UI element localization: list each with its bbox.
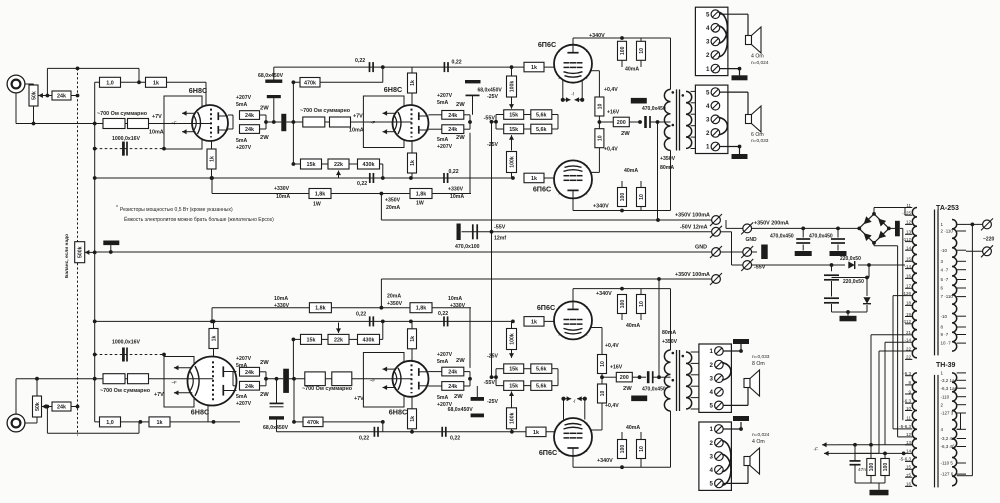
svg-text:+340V: +340V [593,204,609,210]
svg-text:20mA: 20mA [387,294,401,300]
svg-text:6Н8С: 6Н8С [191,408,209,417]
svg-text:2W: 2W [260,106,269,112]
svg-text:2: 2 [586,422,588,426]
svg-text:2: 2 [558,333,560,337]
svg-text:1000,0x16V: 1000,0x16V [112,340,141,346]
svg-text:40mA: 40mA [626,323,640,329]
svg-text:24k: 24k [245,370,254,376]
svg-text:-110 5: -110 5 [941,461,954,466]
svg-text:100: 100 [883,463,889,472]
svg-text:1W: 1W [313,202,321,208]
svg-text:10mA: 10mA [450,194,464,200]
svg-text:47n: 47n [858,467,866,473]
svg-text:24k: 24k [448,384,457,390]
svg-text:2: 2 [558,449,560,453]
svg-text:10 ·7: 10 ·7 [941,341,952,346]
svg-text:GND: GND [695,244,707,250]
svg-text:100k: 100k [509,156,515,168]
svg-text:8 Om: 8 Om [752,361,765,367]
svg-text:3: 3 [709,453,713,460]
svg-text:5,6k: 5,6k [536,127,547,133]
svg-text:-25V: -25V [487,354,498,360]
svg-text:10mA: 10mA [448,296,462,302]
svg-text:2: 2 [558,306,560,310]
svg-text:24k: 24k [448,370,457,376]
svg-text:+207V: +207V [236,356,252,362]
svg-text:10: 10 [639,301,645,307]
svg-text:5: 5 [709,403,713,410]
svg-text:5mA: 5mA [236,102,247,108]
svg-text:2: 2 [558,422,560,426]
svg-text:200: 200 [620,375,629,381]
svg-text:2: 2 [586,49,588,53]
svg-text:-3,2 1а: -3,2 1а [941,378,956,383]
svg-text:6Н8С: 6Н8С [384,85,402,94]
svg-text:0,22: 0,22 [452,60,462,66]
svg-text:+350V: +350V [660,156,676,162]
svg-text:14: 14 [906,246,912,251]
svg-text:1,0: 1,0 [106,420,114,426]
svg-text:15k: 15k [307,162,316,168]
svg-text:15k: 15k [509,113,518,119]
svg-text:6П6С: 6П6С [539,448,557,457]
svg-text:2: 2 [706,130,710,137]
svg-text:3: 3 [706,39,710,46]
svg-text:+340V: +340V [596,291,612,297]
svg-text:22: 22 [906,355,912,360]
svg-text:10: 10 [597,135,603,141]
svg-text:1k: 1k [531,319,537,325]
svg-text:5,6k: 5,6k [536,113,547,119]
svg-text:-55V: -55V [484,380,496,386]
svg-text:~700 Ом суммарно: ~700 Ом суммарно [97,111,148,117]
svg-text:-6,3 4б: -6,3 4б [941,444,956,449]
svg-text:220,0x50: 220,0x50 [843,279,864,285]
svg-text:5mA: 5mA [437,137,448,143]
svg-text:4 ·7: 4 ·7 [941,267,949,272]
svg-text:+207V: +207V [236,95,252,101]
svg-text:11: 11 [906,203,911,208]
svg-text:+207V: +207V [437,144,453,150]
svg-text:~700 Ом суммарно: ~700 Ом суммарно [302,386,353,392]
svg-text:2: 2 [586,192,588,196]
svg-text:+350V: +350V [385,198,401,204]
svg-text:5,6k: 5,6k [536,384,547,390]
svg-text:~700 Ом суммарно: ~700 Ом суммарно [100,388,151,394]
svg-text:+350V 100mA: +350V 100mA [675,213,710,219]
svg-text:+0,4V: +0,4V [605,403,619,409]
svg-text:5mA: 5mA [437,359,448,365]
svg-text:22: 22 [906,346,912,351]
svg-text:+330V: +330V [274,186,290,192]
svg-text:2W: 2W [621,131,630,137]
svg-text:24k: 24k [245,113,254,119]
svg-text:-112: -112 [902,319,911,324]
svg-text:2W: 2W [260,135,269,141]
svg-text:+16V: +16V [607,110,620,116]
svg-text:n=0,024: n=0,024 [752,432,770,438]
svg-text:10mA: 10mA [276,194,290,200]
svg-text:1k: 1k [410,336,416,342]
svg-text:5 ·7: 5 ·7 [941,277,949,282]
svg-text:+350V: +350V [662,339,678,345]
svg-text:24k: 24k [448,113,457,119]
svg-text:~220: ~220 [983,237,994,243]
svg-text:-55V: -55V [484,116,496,122]
svg-text:6 Om: 6 Om [751,132,764,138]
svg-text:5mA: 5mA [236,138,247,144]
svg-text:100: 100 [620,445,626,454]
svg-text:+350V: +350V [387,301,403,307]
svg-text:5mA: 5mA [437,395,448,401]
svg-text:40mA: 40mA [626,425,640,431]
svg-text:1W: 1W [416,201,424,207]
svg-text:4: 4 [709,467,713,474]
svg-text:1k: 1k [410,80,416,86]
svg-text:5,6k: 5,6k [536,367,547,373]
svg-text:220,0x50: 220,0x50 [840,256,861,262]
svg-text:2: 2 [558,76,560,80]
svg-text:-5-6,3: -5-6,3 [899,457,911,462]
svg-text:+330V: +330V [448,187,464,193]
svg-text:9 ·7: 9 ·7 [941,332,949,337]
svg-text:470k: 470k [304,80,316,86]
svg-text:2: 2 [586,333,588,337]
svg-text:~F: ~F [171,380,177,385]
svg-text:6Н8С: 6Н8С [189,86,207,95]
svg-text:1k: 1k [531,65,537,71]
svg-text:470,0x450: 470,0x450 [770,234,794,240]
svg-text:±5: ±5 [906,473,911,478]
svg-text:0,22: 0,22 [449,169,459,175]
svg-text:0,22: 0,22 [438,311,448,317]
svg-text:20mA: 20mA [386,205,400,211]
svg-text:6П6С: 6П6С [538,40,556,49]
svg-text:+207V: +207V [236,145,252,151]
svg-text:10: 10 [639,446,645,452]
svg-text:50k: 50k [31,91,37,100]
svg-text:-50V 12mA: -50V 12mA [680,225,708,231]
svg-text:10: 10 [639,48,645,54]
svg-text:-112: -112 [902,237,911,242]
svg-text:7 ·110: 7 ·110 [941,294,954,299]
svg-text:+330V: +330V [450,303,466,309]
svg-text:12: 12 [906,220,912,225]
svg-text:5mA: 5mA [437,100,448,106]
svg-text:12mf: 12mf [494,236,506,242]
svg-text:2: 2 [586,76,588,80]
svg-text:1k: 1k [410,160,416,166]
svg-text:*: * [116,205,118,211]
svg-text:1,8k: 1,8k [416,306,427,312]
svg-text:15: 15 [906,465,912,470]
svg-text:19: 19 [906,312,912,317]
svg-text:+207V: +207V [437,402,453,408]
svg-text:15k: 15k [307,337,316,343]
svg-text:n=0,033: n=0,033 [752,354,770,360]
svg-text:Резисторы мощностью 0,5 Вт (кр: Резисторы мощностью 0,5 Вт (кроме указан… [120,207,233,213]
svg-text:100: 100 [620,193,626,202]
svg-text:4: 4 [706,25,710,32]
svg-text:4 Om: 4 Om [752,439,765,445]
svg-text:0,22: 0,22 [357,181,367,187]
svg-text:100k: 100k [509,333,515,345]
svg-text:200: 200 [617,120,626,126]
svg-text:2W: 2W [456,135,465,141]
svg-text:+0,4V: +0,4V [605,343,619,349]
svg-text:+207V: +207V [437,93,453,99]
svg-text:430k: 430k [363,162,375,168]
svg-text:+7V: +7V [154,392,164,398]
svg-text:18: 18 [906,301,912,306]
svg-text:24k: 24k [57,94,66,100]
svg-text:24k: 24k [245,384,254,390]
svg-text:1k: 1k [211,336,217,342]
svg-text:17: 17 [906,284,912,289]
svg-text:0,22: 0,22 [450,436,460,442]
svg-text:15k: 15k [509,384,518,390]
svg-text:4: 4 [706,103,710,110]
svg-text:16: 16 [906,274,912,279]
svg-text:+7V: +7V [152,114,162,120]
svg-text:1,8k: 1,8k [315,192,326,198]
svg-text:100: 100 [620,46,626,55]
svg-text:2: 2 [709,362,713,369]
svg-text:10: 10 [639,194,645,200]
svg-text:n=0,024: n=0,024 [751,60,769,66]
svg-text:1,8k: 1,8k [315,306,326,312]
svg-text:-6,3: -6,3 [903,371,911,376]
svg-text:-10: -10 [941,314,948,319]
svg-text:5mA: 5mA [236,363,247,369]
svg-text:0,22: 0,22 [356,312,366,318]
svg-text:1: 1 [706,66,710,73]
svg-text:+0,4V: +0,4V [604,147,618,153]
svg-text:6П6С: 6П6С [533,185,551,194]
svg-text:+350V 100mA: +350V 100mA [675,272,710,278]
svg-text:2: 2 [586,165,588,169]
svg-text:100k: 100k [509,412,515,424]
svg-text:n=0,033: n=0,033 [751,138,769,144]
svg-text:22k: 22k [334,162,343,168]
svg-text:ТА-253: ТА-253 [936,205,959,212]
svg-text:10: 10 [600,361,606,367]
svg-text:15k: 15k [509,367,518,373]
svg-text:24k: 24k [57,405,66,411]
svg-text:6П6С: 6П6С [537,303,555,312]
svg-text:1k: 1k [410,416,416,422]
svg-text:Ёмкость электролитов можно бра: Ёмкость электролитов можно брать больше … [124,216,274,223]
svg-text:+207V: +207V [236,401,252,407]
svg-text:2W: 2W [456,358,465,364]
svg-text:10mA: 10mA [149,130,164,136]
svg-text:1: 1 [706,144,710,151]
svg-text:1: 1 [709,426,713,433]
svg-text:2: 2 [586,306,588,310]
svg-text:-10: -10 [941,248,948,253]
svg-text:13: 13 [906,230,912,235]
svg-text:100: 100 [869,463,875,472]
svg-text:1,0: 1,0 [106,80,114,86]
svg-text:4: 4 [709,389,713,396]
svg-text:2: 2 [709,440,713,447]
svg-text:22k: 22k [334,337,343,343]
svg-text:1: 1 [709,348,713,355]
svg-text:-25V: -25V [487,399,498,405]
svg-text:2: 2 [558,192,560,196]
svg-text:10: 10 [906,406,912,411]
svg-text:80mA: 80mA [662,330,676,336]
svg-text:-125: -125 [902,211,912,216]
svg-text:5: 5 [706,89,710,96]
svg-text:-127 3: -127 3 [941,411,954,416]
svg-text:80mA: 80mA [660,165,674,171]
svg-text:1k: 1k [209,156,215,162]
svg-text:12: 12 [906,432,912,437]
svg-text:10mA: 10mA [274,296,288,302]
svg-text:2: 2 [558,165,560,169]
svg-text:2 ·110: 2 ·110 [941,229,954,234]
svg-text:40mA: 40mA [624,168,638,174]
svg-text:+350V 200mA: +350V 200mA [754,221,789,227]
svg-text:24k: 24k [245,127,254,133]
svg-text:-14: -14 [904,338,911,343]
svg-text:-110: -110 [941,394,950,399]
svg-text:+340V: +340V [589,33,605,39]
svg-text:1,8k: 1,8k [416,192,427,198]
svg-text:-F: -F [813,447,818,453]
svg-text:21: 21 [906,330,912,335]
svg-text:-3,2 4а: -3,2 4а [941,436,956,441]
svg-text:~700 Ом суммарно: ~700 Ом суммарно [300,108,351,114]
svg-text:ТН-39: ТН-39 [936,362,956,369]
svg-text:2: 2 [706,52,710,59]
svg-text:68,0x450V: 68,0x450V [258,73,284,79]
svg-text:5: 5 [709,481,713,488]
svg-text:470,0x450: 470,0x450 [642,106,666,112]
svg-text:-14: -14 [904,264,911,269]
svg-text:2W: 2W [260,360,269,366]
svg-text:470,0x450: 470,0x450 [809,234,833,240]
svg-text:+0,4V: +0,4V [604,87,618,93]
svg-text:500k: 500k [78,246,84,258]
svg-text:10mA: 10mA [349,128,364,134]
svg-text:11: 11 [906,416,911,421]
svg-text:2W: 2W [260,392,269,398]
svg-text:1000,0x16V: 1000,0x16V [112,136,141,142]
svg-text:1k: 1k [157,420,163,426]
svg-text:2: 2 [586,449,588,453]
svg-text:GND: GND [746,237,758,243]
svg-text:5mA: 5mA [236,394,247,400]
svg-text:+207V: +207V [437,352,453,358]
svg-text:15k: 15k [509,127,518,133]
svg-text:6Н8С: 6Н8С [389,408,407,417]
svg-text:-55V: -55V [494,225,506,231]
svg-text:470,0x450: 470,0x450 [642,387,666,393]
svg-text:2W: 2W [456,102,465,108]
svg-text:+330V: +330V [274,303,290,309]
svg-text:15: 15 [906,257,912,262]
svg-text:68,0x450V: 68,0x450V [478,88,503,94]
svg-text:+7V: +7V [354,396,364,402]
svg-text:430k: 430k [363,337,375,343]
svg-text:2W: 2W [454,394,463,400]
svg-text:-6,3: -6,3 [903,399,911,404]
svg-text:10: 10 [597,104,603,110]
svg-text:100: 100 [620,300,626,309]
svg-text:14: 14 [906,449,912,454]
svg-text:40mA: 40mA [625,67,639,73]
svg-text:24k: 24k [448,127,457,133]
svg-text:1k: 1k [153,80,159,86]
svg-text:Баланс, если надо: Баланс, если надо [64,234,70,278]
svg-text:5: 5 [706,11,710,18]
svg-text:470k: 470k [307,420,319,426]
svg-text:0,22: 0,22 [355,58,365,64]
svg-text:10: 10 [600,391,606,397]
svg-text:1k: 1k [533,430,539,436]
svg-text:4 Om: 4 Om [751,54,764,60]
svg-text:0,22: 0,22 [359,436,369,442]
svg-text:-6,3 1а6: -6,3 1а6 [941,386,958,391]
svg-text:-25V: -25V [487,142,498,148]
svg-text:16: 16 [906,482,912,487]
svg-text:50k: 50k [35,402,41,411]
svg-text:3: 3 [709,375,713,382]
svg-text:470,0x100: 470,0x100 [455,244,480,250]
svg-text:-127 6: -127 6 [941,472,954,477]
svg-text:100k: 100k [509,81,515,93]
svg-text:+340V: +340V [597,458,613,464]
svg-text:2: 2 [558,49,560,53]
svg-text:68,0x450V: 68,0x450V [263,425,289,431]
svg-text:2W: 2W [623,386,632,392]
svg-text:1k: 1k [531,176,537,182]
svg-text:+7V: +7V [353,114,363,120]
svg-text:-25V: -25V [487,94,498,100]
svg-text:3: 3 [706,117,710,124]
svg-text:+16V: +16V [610,365,623,371]
